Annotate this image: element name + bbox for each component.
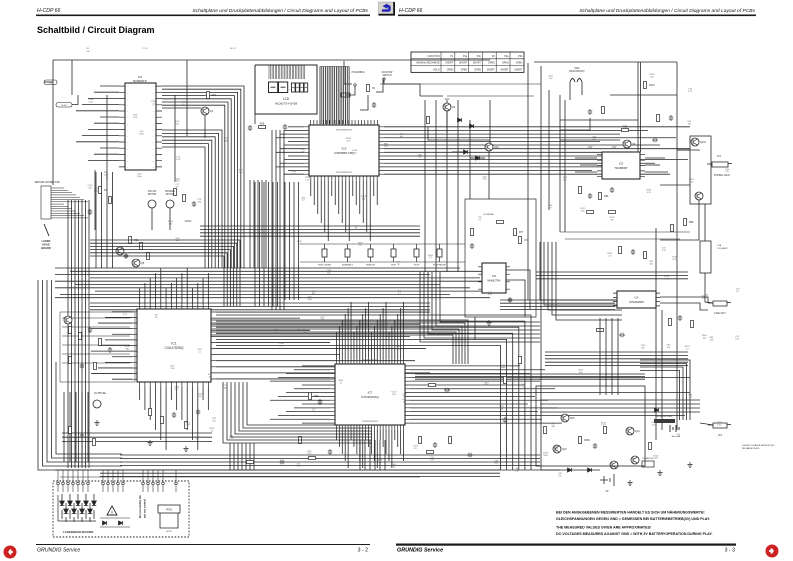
wire aux hbus — [62, 326, 130, 328]
wire — [122, 485, 124, 492]
wire — [280, 133, 304, 135]
wire IC2 right bus B — [162, 130, 222, 268]
svg-text:R60: R60 — [314, 395, 319, 398]
transistor Q — [626, 427, 634, 435]
svg-text:GRUNDIG Service: GRUNDIG Service — [37, 548, 80, 554]
wire sensor — [51, 215, 84, 217]
svg-text:1.5V: 1.5V — [305, 179, 310, 181]
wire IC7 right — [410, 384, 525, 386]
wire — [94, 122, 119, 124]
LCD pin — [294, 66, 296, 80]
wire sensor — [51, 210, 76, 212]
wire IC3 bottom drop — [327, 181, 329, 241]
resistor — [149, 409, 152, 416]
svg-text:SHORT: SHORT — [501, 69, 510, 71]
LCD pin — [285, 66, 287, 80]
wire — [581, 82, 583, 95]
svg-text:2.6V: 2.6V — [89, 102, 94, 104]
transistor Q — [695, 192, 703, 200]
wire IC7 bottom — [379, 430, 381, 440]
capacitor — [124, 253, 128, 259]
wire — [100, 85, 119, 87]
wire — [117, 470, 119, 482]
wire LCD-IC3 vertical bus — [341, 67, 343, 125]
wire — [575, 171, 597, 173]
table row line — [411, 65, 524, 67]
wire aux hbus — [62, 353, 130, 355]
wire IC3 right — [384, 173, 670, 175]
wire IC7 bottom — [385, 430, 387, 454]
svg-text:1.5V: 1.5V — [430, 460, 435, 462]
wire sensor — [51, 212, 80, 214]
svg-text:C9 DC: C9 DC — [61, 105, 68, 107]
wire center hbus2 — [90, 302, 430, 304]
LCD pin — [293, 66, 295, 80]
wire IC3-IC1 verticals — [272, 182, 274, 306]
wire buttons rail — [300, 261, 465, 263]
wire audio hbus2 — [545, 358, 688, 360]
wire — [105, 361, 132, 363]
svg-text:P2a: P2a — [504, 56, 509, 58]
wire — [151, 208, 153, 230]
wire — [169, 208, 171, 230]
wire IC1 bottom — [207, 387, 209, 410]
wire — [94, 153, 119, 155]
wire IC7 top — [403, 302, 405, 359]
wire below aux — [87, 392, 89, 462]
wire IC7 bottom — [359, 430, 361, 461]
diode — [464, 150, 468, 154]
svg-text:BA6800FP: BA6800FP — [133, 79, 147, 83]
wire — [560, 119, 638, 121]
wire IC3-IC1 verticals — [263, 182, 265, 306]
wire IC3 right — [384, 126, 690, 128]
wire IC7 top — [379, 314, 381, 359]
wire audio hbus2 — [545, 365, 688, 367]
wire rail — [540, 66, 542, 432]
coil assy box — [700, 241, 711, 273]
svg-text:ASSEMBLY: ASSEMBLY — [342, 264, 354, 267]
resistor — [69, 357, 72, 364]
wire — [102, 485, 104, 492]
ground — [486, 320, 491, 326]
wire mid rails — [435, 100, 437, 272]
capacitor — [196, 409, 200, 415]
wire LCD-IC3 vertical bus — [335, 67, 337, 125]
wire rail x175 — [174, 95, 176, 182]
wire LCD-IC3 vertical bus — [343, 67, 345, 125]
svg-text:2.6V: 2.6V — [482, 179, 487, 181]
wire — [88, 97, 119, 99]
wire sensor — [51, 194, 76, 196]
wire — [94, 91, 119, 93]
wire IC3-left verticals — [283, 130, 285, 310]
LCD pin — [296, 66, 298, 80]
LCD pin — [274, 66, 276, 80]
wire — [640, 62, 642, 152]
motor M2 — [166, 200, 174, 208]
wire IC7 bottom — [400, 430, 402, 454]
svg-text:SHORT: SHORT — [459, 63, 468, 65]
svg-text:OPEN: OPEN — [461, 69, 468, 71]
svg-text:LASER: LASER — [42, 239, 51, 243]
LCD pin — [288, 66, 290, 80]
diode — [458, 118, 462, 122]
wire — [112, 356, 132, 358]
svg-text:NJM2068MD: NJM2068MD — [629, 301, 644, 304]
capacitor — [80, 363, 84, 369]
svg-text:C7A: C7A — [717, 244, 722, 247]
wire IC2 right bus B — [162, 140, 212, 268]
wire IC7 top — [344, 314, 346, 359]
wire — [345, 86, 355, 95]
wire — [575, 157, 597, 159]
wire IC7 top — [350, 302, 352, 359]
wire IC7 bottom — [376, 430, 378, 468]
resistor — [602, 107, 605, 114]
wire left vertical bus — [81, 200, 83, 468]
wire IC1 right — [216, 372, 430, 374]
wire left vertical bus — [85, 200, 87, 468]
wire band right — [536, 274, 688, 276]
svg-text:D8 RB160L: D8 RB160L — [484, 214, 496, 216]
wire — [428, 127, 490, 140]
wire center hbus2 — [90, 305, 430, 307]
svg-text:Q10: Q10 — [494, 146, 499, 149]
resistor — [597, 329, 604, 332]
capacitor — [108, 347, 112, 353]
wire IC7 top — [400, 308, 402, 359]
wire bottom verticals — [233, 443, 235, 470]
wire IC1 top — [170, 283, 172, 304]
wire audio verticals — [617, 318, 619, 395]
svg-text:1.5V: 1.5V — [133, 117, 138, 119]
wire — [98, 367, 132, 369]
wire — [47, 362, 122, 462]
wire left vertical bus — [78, 200, 80, 468]
wire left border — [52, 60, 54, 185]
svg-text:SEARCH: SEARCH — [366, 264, 375, 267]
wire sensor — [51, 187, 64, 189]
svg-text:IC5: IC5 — [619, 162, 624, 166]
wire IC7 bottom — [394, 430, 396, 440]
wire — [239, 382, 372, 431]
svg-text:MOTOR: MOTOR — [166, 194, 175, 196]
wire IC1right-down bus — [216, 333, 513, 470]
wire IC2-left verticals — [95, 172, 97, 268]
capacitor — [610, 187, 614, 193]
svg-text:1.5V: 1.5V — [588, 147, 593, 149]
battery 3V — [670, 425, 679, 432]
wire IC7 top — [356, 326, 358, 359]
wire — [446, 111, 448, 133]
svg-text:R113: R113 — [649, 84, 655, 87]
wire IC1 bottom — [176, 387, 178, 410]
wire IC7 top — [362, 314, 364, 359]
switch box — [341, 93, 350, 97]
wire bottom hbus — [120, 465, 540, 467]
wire — [560, 139, 620, 141]
wire mid verticals — [249, 180, 251, 268]
wire IC2-left verticals — [112, 172, 114, 268]
wire IC1 top — [149, 278, 151, 304]
wire IC7 bottom — [362, 430, 364, 468]
wire IC7 top — [397, 314, 399, 359]
wire — [72, 95, 78, 105]
wire — [91, 350, 132, 352]
svg-text:IC7: IC7 — [368, 391, 373, 395]
transistor Q — [443, 103, 451, 111]
wire left rails — [51, 280, 53, 362]
svg-text:Q16: Q16 — [562, 448, 567, 451]
LCD pin — [279, 66, 281, 80]
svg-text:OPEN: OPEN — [502, 63, 509, 65]
capacitor — [444, 388, 450, 392]
wire IC1 right — [216, 335, 410, 337]
wire IC1 top — [165, 288, 167, 304]
wire IC3 bottom drop — [376, 181, 378, 205]
wire — [91, 328, 132, 330]
wire IC1 right — [216, 311, 430, 313]
wire bottom verticals2 — [374, 440, 376, 470]
wire — [112, 333, 132, 335]
IC IC7 pins — [330, 359, 410, 430]
recharge plate — [654, 419, 675, 423]
wire — [70, 270, 500, 272]
capacitor — [619, 333, 625, 337]
wire bus cap — [320, 66, 349, 68]
board LASERHEAD outline — [53, 481, 189, 537]
wire bottom hbus — [120, 454, 540, 456]
svg-text:2.6V: 2.6V — [689, 181, 694, 183]
wire — [552, 242, 622, 315]
svg-text:R11: R11 — [212, 94, 217, 97]
wire — [72, 470, 74, 482]
box — [279, 82, 288, 93]
wire — [506, 270, 530, 310]
wire — [100, 147, 119, 149]
resistor — [99, 339, 102, 346]
resistor — [140, 243, 143, 250]
wire rail — [661, 310, 663, 430]
wire — [610, 94, 677, 96]
wire — [112, 378, 132, 380]
wire — [100, 526, 130, 528]
wire LCD-IC3 vertical bus — [339, 67, 341, 125]
wire IC7 left — [278, 395, 330, 397]
wire — [82, 470, 84, 482]
transistor Q — [561, 414, 569, 422]
wire IC7 bottom — [388, 430, 390, 461]
svg-text:SKIP: SKIP — [391, 265, 396, 267]
wire into IC1 top — [90, 253, 227, 306]
wire IC3 right — [384, 166, 625, 168]
photodiode D1 — [61, 494, 63, 519]
wire — [100, 116, 119, 118]
wire sensor — [51, 196, 80, 198]
wire — [175, 470, 177, 482]
wire IC7 bottom — [344, 430, 346, 461]
wire IC2-left verticals — [106, 172, 108, 268]
wire — [38, 362, 122, 470]
wire below aux — [69, 392, 71, 462]
wire IC1right-down bus — [216, 315, 531, 470]
wire IC3 right — [384, 148, 690, 150]
svg-text:R31: R31 — [134, 239, 139, 242]
resistor — [471, 229, 474, 236]
wire IC1-IC7 bus — [211, 329, 459, 364]
svg-text:R29: R29 — [260, 123, 265, 126]
svg-text:OPEN: OPEN — [488, 63, 495, 65]
svg-text:pot out control: pot out control — [143, 499, 147, 518]
wire IC3 bottom drop — [366, 181, 368, 232]
capacitor — [588, 109, 592, 115]
wire — [645, 171, 668, 173]
wire bottom verticals — [245, 443, 247, 470]
footer rule left — [36, 544, 370, 545]
wire IC1right-down bus — [216, 327, 519, 470]
wire IC2 right bus A — [162, 105, 225, 268]
transistor Q — [64, 316, 72, 324]
wire IC7 top — [391, 326, 393, 359]
wire — [98, 345, 132, 347]
resistor — [599, 193, 602, 200]
wire IC7 right — [410, 422, 562, 424]
wire IC1 right — [216, 360, 415, 362]
box IC6 circuit — [465, 199, 536, 317]
wire audio hbus — [540, 407, 700, 409]
wire — [44, 81, 53, 83]
svg-text:2.6V: 2.6V — [554, 449, 559, 451]
LCD pin — [287, 66, 289, 80]
wire IC1-IC7 bus — [211, 323, 465, 364]
box — [437, 249, 442, 257]
svg-text:BASS BOOST: BASS BOOST — [569, 70, 585, 73]
wire — [376, 78, 383, 92]
LCD pin — [271, 66, 273, 80]
box — [322, 249, 327, 257]
wire left vertical bus — [67, 200, 69, 468]
svg-text:POWER SW: POWER SW — [643, 458, 654, 460]
LCD digit small — [296, 83, 300, 92]
wire aux hbus — [62, 362, 130, 364]
wire IC7 right — [410, 376, 690, 378]
svg-text:IC1: IC1 — [171, 342, 176, 346]
wire IC7 right — [410, 411, 538, 413]
wire — [544, 242, 622, 305]
capacitor — [80, 433, 84, 439]
svg-text:HLD627S-H141B: HLD627S-H141B — [275, 102, 297, 106]
svg-text:SD 47: SD 47 — [230, 48, 237, 50]
wire IC7 left — [294, 369, 330, 371]
resistor — [207, 92, 210, 99]
wire aux hbus — [62, 344, 130, 346]
wire — [276, 166, 304, 168]
header rule right — [398, 15, 756, 17]
wire IC3 bottom drop — [348, 181, 350, 241]
ground — [183, 446, 188, 452]
wire IC1 top — [192, 288, 194, 304]
wire — [56, 362, 122, 454]
wire IC3-left verticals — [271, 130, 273, 310]
wire — [284, 159, 304, 161]
wire audio rail y374 — [415, 373, 645, 375]
wire — [704, 204, 706, 241]
wire — [235, 382, 372, 434]
wire IC1 right — [216, 366, 360, 368]
wire mid hbus — [200, 235, 420, 237]
wire — [440, 272, 540, 322]
svg-text:SHORT: SHORT — [473, 63, 482, 65]
wire — [580, 164, 597, 166]
capacitor — [328, 449, 332, 455]
resistor — [657, 115, 660, 122]
wire audio hbus — [540, 403, 700, 405]
IC IC5 body — [602, 152, 640, 179]
svg-text:SHORT: SHORT — [514, 69, 523, 71]
wire IC1 top — [144, 283, 146, 304]
wire center hbus2 — [90, 309, 430, 311]
resistor — [147, 253, 150, 260]
wire IC2 right bus A — [162, 102, 228, 268]
wire — [91, 373, 132, 375]
box — [368, 249, 373, 257]
svg-text:BOARD: BOARD — [41, 246, 51, 250]
wire LCD-IC3 vertical bus — [344, 67, 346, 125]
wire IC7 left — [302, 384, 330, 386]
wire IC7 left — [302, 422, 330, 424]
resistor — [419, 437, 422, 444]
wire IC1 top — [186, 268, 188, 304]
wire LCD-IC3 vertical bus — [330, 67, 332, 125]
wire — [94, 170, 96, 230]
wire — [700, 423, 713, 425]
LCD digit small — [300, 83, 304, 92]
svg-text:1.5V: 1.5V — [392, 394, 397, 396]
wire IC3 bottom drop — [355, 181, 357, 205]
wire mid hbus — [200, 228, 420, 230]
wire — [62, 470, 64, 482]
wire — [470, 157, 485, 159]
wire — [344, 61, 352, 84]
wire — [98, 322, 132, 324]
transistor Q — [553, 445, 561, 453]
wire buttons rail — [300, 243, 465, 245]
wire — [55, 297, 490, 299]
wire — [488, 151, 490, 199]
wire — [383, 80, 385, 84]
wire — [162, 485, 164, 492]
resistor — [609, 211, 616, 214]
resistor — [174, 189, 177, 196]
wire IC7 left — [302, 403, 330, 405]
wire mid verticals — [265, 180, 267, 268]
wire IC7 left — [270, 380, 330, 382]
wire IC3 verticals2 — [293, 182, 295, 300]
resistor — [367, 85, 370, 92]
wire IC1 right — [216, 378, 350, 380]
resistor — [644, 82, 647, 89]
LCD pin — [276, 66, 278, 80]
LCD pin — [291, 66, 293, 80]
return arrow icon — [382, 6, 390, 10]
svg-text:Schaltpläne und Druckplattenab: Schaltpläne und Druckplattenabbildungen … — [579, 8, 755, 14]
svg-text:SWITCH: SWITCH — [382, 75, 391, 77]
connector oval C9 — [56, 103, 72, 108]
IC IC2 body — [125, 83, 156, 170]
wire — [660, 303, 708, 310]
resistor — [504, 377, 507, 384]
